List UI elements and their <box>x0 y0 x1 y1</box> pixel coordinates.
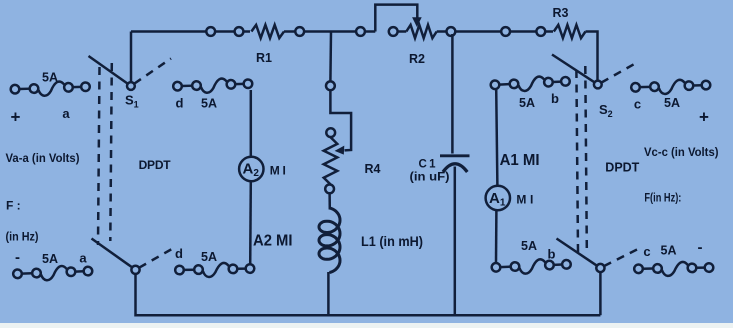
svg-text:DPDT: DPDT <box>139 158 172 172</box>
svg-text:5A: 5A <box>42 252 58 266</box>
wire node to R3 <box>545 30 553 33</box>
svg-text:F :: F : <box>6 199 21 213</box>
wire node to L1 <box>328 193 331 209</box>
svg-text:(in uF): (in uF) <box>410 170 450 184</box>
svg-text:b: b <box>551 91 559 106</box>
wire d-fuse down to ammeter A2 <box>250 90 253 157</box>
wire: top rail left segment <box>131 30 206 33</box>
svg-text:Vc-c (in Volts): Vc-c (in Volts) <box>644 145 719 159</box>
svg-text:b: b <box>548 247 556 262</box>
switch S2 upper dashed throw <box>601 63 637 83</box>
node circle R4 bottom / L1 top <box>325 185 334 194</box>
wire A2 down to lower d-fuse <box>249 181 252 265</box>
svg-text:R3: R3 <box>553 6 569 20</box>
wire: S1 riser to top rail <box>130 32 133 82</box>
node circle before R1 <box>235 27 244 36</box>
wire to R2 wiper riser <box>365 30 375 33</box>
switch S2 lower dashed throw <box>604 248 641 267</box>
svg-text:+: + <box>699 108 709 127</box>
ammeter A2 <box>239 157 263 181</box>
svg-text:F(in Hz):: F(in Hz): <box>644 193 681 205</box>
svg-text:L1 (in mH): L1 (in mH) <box>361 233 423 249</box>
svg-text:d: d <box>176 96 184 111</box>
svg-text:R4: R4 <box>365 162 381 176</box>
switch S1 upper dashed throw <box>134 59 171 84</box>
fuse left upper 5A <box>10 80 90 96</box>
wire A1 down to lower b-fuse <box>495 210 498 262</box>
switch S1 upper pivot <box>127 82 135 90</box>
fuse d lower 5A <box>175 262 254 277</box>
svg-text:MI: MI <box>516 192 533 206</box>
svg-text:DPDT: DPDT <box>605 161 639 175</box>
svg-text:+: + <box>11 108 21 127</box>
svg-text:(in Hz): (in Hz) <box>6 232 39 244</box>
wire node to R1 <box>243 30 250 33</box>
node circle after R1 <box>295 27 304 36</box>
inductor L1 coil <box>319 208 340 273</box>
node circle R4 branch top <box>326 81 335 90</box>
wire S2 lower pivot to bottom rail <box>599 272 602 315</box>
node circle after R2 / C1 tap <box>447 27 456 36</box>
svg-text:R2: R2 <box>409 52 425 66</box>
wire node to R2 section <box>304 30 356 33</box>
resistor R3 <box>554 25 586 38</box>
switch S1 gang dashed link left <box>98 67 100 245</box>
wire S1 lower pivot to bottom rail <box>136 274 601 315</box>
resistor R1 <box>251 25 284 38</box>
wire R2 terminal to zigzag <box>398 30 407 33</box>
svg-text:a: a <box>62 106 70 121</box>
svg-text:MI: MI <box>270 164 286 178</box>
svg-text:5A: 5A <box>521 239 537 253</box>
rheostat R2 wiper arrowhead <box>412 17 422 27</box>
svg-text:-: - <box>698 239 703 256</box>
bottom pale strip <box>0 323 733 328</box>
svg-text:A2 MI: A2 MI <box>253 233 293 250</box>
svg-text:Va-a (in Volts): Va-a (in Volts) <box>6 151 80 165</box>
wire node to node <box>455 30 501 33</box>
wire between nodes <box>215 30 235 33</box>
svg-text:c: c <box>634 97 641 112</box>
node circle before R2 <box>356 27 365 36</box>
wire C1 to bottom rail <box>454 167 457 316</box>
fuse d upper 5A <box>173 77 253 93</box>
node circle R2 left terminal <box>389 27 398 36</box>
switch S1 lower dashed throw <box>139 248 174 268</box>
fuse c lower 5A <box>634 261 713 276</box>
node circle R4 top terminal <box>326 128 335 137</box>
wire L1 to bottom rail <box>327 272 330 315</box>
switch S1 lower blade <box>92 239 133 268</box>
node circle before R3 <box>536 27 545 36</box>
svg-text:5A: 5A <box>42 71 58 85</box>
svg-text:5A: 5A <box>201 250 217 264</box>
wire R2 to node <box>437 30 447 33</box>
switch S2 gang dashed link right <box>585 66 587 248</box>
resistor R4 body <box>324 137 338 184</box>
ammeter A1 <box>486 186 510 210</box>
wire b-fuse down to A1 label area <box>496 88 497 185</box>
svg-text:c: c <box>643 244 650 259</box>
switch S1 gang dashed link right <box>110 63 112 241</box>
fuse b lower 5A <box>491 258 571 275</box>
wire C1 tap down <box>451 34 454 154</box>
switch S2 lower pivot <box>596 264 604 272</box>
fuse left lower 5A <box>13 265 93 282</box>
svg-text:R1: R1 <box>256 51 272 65</box>
svg-text:5A: 5A <box>664 96 680 110</box>
svg-text:-: - <box>15 249 20 266</box>
capacitor C1 curved plate <box>443 164 467 172</box>
switch S1 lower pivot <box>131 266 139 274</box>
wire node to node <box>510 30 536 33</box>
switch S2 upper pivot <box>594 81 602 89</box>
switch S2 lower blade <box>557 239 598 266</box>
node circle <box>501 27 510 36</box>
svg-text:5A: 5A <box>519 96 535 110</box>
fuse c upper 5A <box>631 79 710 95</box>
svg-text:A1 MI: A1 MI <box>500 152 540 169</box>
switch S1 upper blade <box>89 56 128 84</box>
svg-text:a: a <box>79 251 87 266</box>
svg-text:5A: 5A <box>661 244 677 258</box>
capacitor C1 top plate <box>440 154 470 157</box>
switch S2 upper blade <box>552 55 595 83</box>
fuse b upper 5A <box>490 75 570 93</box>
svg-text:d: d <box>175 246 183 261</box>
rheostat R2 wiper arm <box>375 5 417 32</box>
node circle on top rail <box>206 27 215 36</box>
wire top rail tap down to R4 branch <box>329 32 332 82</box>
resistor R2 body <box>406 25 436 38</box>
rheostat R4 wiper arrowhead <box>335 146 345 155</box>
switch S2 gang dashed link left <box>576 70 578 252</box>
svg-text:5A: 5A <box>201 97 217 111</box>
rheostat R4 wiper jog <box>330 90 351 150</box>
wire R1 to node <box>284 30 295 33</box>
wire R3 to S2 riser corner <box>586 32 598 81</box>
